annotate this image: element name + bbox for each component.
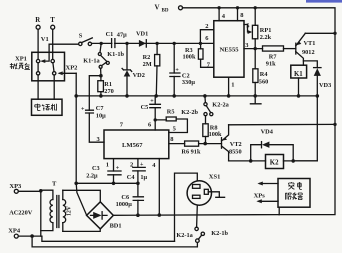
svg-text:R5: R5 bbox=[167, 108, 175, 115]
node R1 top junction bbox=[99, 74, 103, 78]
wire VD3 cathode lead to bus bbox=[316, 76, 318, 96]
svg-text:2M: 2M bbox=[143, 61, 152, 68]
svg-text:2.2μ: 2.2μ bbox=[86, 172, 98, 179]
node pin6/R5 junction bbox=[154, 118, 157, 121]
svg-text:+: + bbox=[81, 106, 85, 112]
svg-text:V1: V1 bbox=[41, 36, 49, 43]
svg-text:1μ: 1μ bbox=[140, 174, 147, 181]
ground symbol below R4 bbox=[250, 96, 261, 104]
svg-text:NE555: NE555 bbox=[220, 47, 240, 54]
node pin3/RP1/R4 junction bbox=[254, 47, 257, 50]
connector XPs arrows bbox=[254, 182, 278, 204]
wire VD4 branch bbox=[251, 145, 294, 161]
transistor Q2 VT2 8550 PNP bbox=[222, 125, 242, 161]
diode VD1 bbox=[136, 30, 148, 47]
op-amp U2 LM567 tone decoder bbox=[104, 130, 169, 159]
svg-text:K2-2b: K2-2b bbox=[181, 109, 198, 116]
svg-text:R4: R4 bbox=[260, 71, 269, 78]
wire RP1 top lead bbox=[254, 8, 256, 26]
svg-text:XS1: XS1 bbox=[209, 174, 221, 181]
svg-text:330μ: 330μ bbox=[182, 79, 195, 86]
wire R1 leads bbox=[100, 76, 102, 96]
wire neutral from transformer to XS1 riser bbox=[42, 236, 175, 241]
svg-text:1: 1 bbox=[106, 162, 109, 169]
wire collector spur to VD3 bbox=[303, 61, 317, 68]
potentiometer RP1 body bbox=[252, 25, 257, 39]
wire VD3-node down to K2 return bbox=[293, 96, 317, 161]
switch K1-1b bbox=[98, 43, 124, 64]
wire top VBD rail + right border rail + bottom DC rail bbox=[183, 8, 336, 215]
svg-text:VD2: VD2 bbox=[133, 72, 145, 79]
svg-text:1: 1 bbox=[231, 82, 234, 89]
capacitor C7 bbox=[81, 105, 106, 119]
svg-text:2: 2 bbox=[130, 162, 133, 169]
wire DC+ rail from BD1 to border bbox=[113, 214, 279, 217]
svg-text:K1: K1 bbox=[294, 71, 303, 78]
接线盒 label (junction box) bbox=[10, 63, 30, 69]
node DC+ junctions bbox=[136, 213, 161, 217]
svg-text:+: + bbox=[175, 68, 179, 74]
wire R2 leads bbox=[155, 43, 158, 96]
svg-text:9012: 9012 bbox=[302, 49, 315, 56]
wire XS1 bottom pin to K2-1a bbox=[196, 205, 199, 227]
svg-text:VD3: VD3 bbox=[319, 82, 331, 89]
svg-text:R7: R7 bbox=[269, 54, 277, 61]
socket XS1 outline bbox=[187, 174, 220, 206]
wire VT1 emitter to VBD rail bbox=[305, 32, 335, 34]
capacitor C4 bbox=[127, 159, 148, 184]
电话机 box (telephone set) bbox=[32, 99, 63, 115]
svg-text:K2-1a: K2-1a bbox=[176, 232, 193, 239]
wire secondary bottom to BD1 bbox=[63, 229, 100, 232]
svg-text:XP2: XP2 bbox=[66, 64, 78, 71]
svg-text:VD1: VD1 bbox=[136, 30, 148, 37]
resistor R2 body bbox=[155, 55, 160, 66]
node R line terminal bbox=[35, 17, 40, 29]
capacitor C2 electrolytic bbox=[170, 43, 195, 96]
wire NE555 pin 2 lead bbox=[200, 30, 213, 44]
resistor R4 body bbox=[253, 69, 258, 83]
svg-text:C5: C5 bbox=[141, 104, 149, 111]
R2 value label bbox=[143, 54, 152, 68]
wire T line down to jack bbox=[52, 29, 54, 59]
svg-text:270: 270 bbox=[104, 88, 113, 95]
svg-text:K2-1b: K2-1b bbox=[211, 230, 228, 237]
node ground spine junction bbox=[74, 182, 78, 186]
capacitor C3 bbox=[86, 159, 121, 184]
svg-text:S: S bbox=[79, 33, 83, 40]
node R8/base junction bbox=[203, 142, 207, 146]
wire ground spine (phone common / DC minus) bbox=[76, 73, 86, 215]
wire R3 top lead bbox=[200, 43, 202, 49]
resistor R7 body bbox=[263, 46, 284, 51]
switch K2-2b bbox=[181, 109, 207, 116]
wire R line down to jack bbox=[37, 29, 39, 59]
svg-text:2.2k: 2.2k bbox=[260, 34, 272, 41]
R1 value label bbox=[104, 81, 113, 95]
R3 value label bbox=[183, 47, 196, 61]
node bus junctions bbox=[74, 94, 319, 98]
node emitter-rail junction bbox=[333, 32, 336, 35]
wire NE555 pin 7 lead bbox=[201, 59, 214, 67]
node VD4 branch junctions bbox=[249, 159, 295, 163]
wire VT2 emitter to VBD border rail bbox=[229, 123, 335, 125]
wire DC minus line to C3 C4 bbox=[76, 182, 138, 184]
wire jack to telephone box bbox=[38, 75, 54, 99]
connector XP4 terminal bbox=[8, 227, 42, 238]
wire jack internal links bbox=[38, 63, 54, 72]
svg-text:BD: BD bbox=[162, 9, 169, 14]
rectifier BD1 bridge bbox=[87, 202, 122, 230]
wire NE555 pin 5 lead to RP1 wiper bbox=[244, 25, 250, 33]
resistor R6 body bbox=[185, 141, 199, 146]
svg-text:2: 2 bbox=[205, 23, 208, 30]
node XP4 junction bbox=[30, 234, 34, 238]
RP1 wiper arrowhead bbox=[248, 30, 253, 34]
svg-text:91k: 91k bbox=[266, 61, 276, 68]
node T line terminal bbox=[50, 17, 55, 29]
diode VD4 bbox=[261, 129, 274, 148]
svg-text:T: T bbox=[50, 17, 55, 24]
connector XP3 terminal bbox=[9, 183, 42, 193]
node VBD supply terminal bbox=[155, 4, 183, 14]
resistor R1 body bbox=[98, 81, 104, 92]
svg-text:C7: C7 bbox=[96, 105, 104, 112]
capacitor C1 bbox=[106, 31, 127, 48]
wire pin 8 to R6 bbox=[169, 143, 185, 145]
wire LM567 pin 4 lead to DC+ bbox=[158, 159, 160, 216]
svg-text:XPs: XPs bbox=[254, 192, 266, 199]
R7 value label bbox=[266, 54, 277, 68]
svg-text:+: + bbox=[140, 162, 144, 168]
wire secondary top to BD1 bbox=[63, 190, 101, 202]
svg-text:K2: K2 bbox=[270, 159, 279, 166]
switch K2-1a bbox=[176, 227, 201, 242]
svg-text:560: 560 bbox=[259, 79, 268, 86]
wire XS1 earth pin bbox=[208, 192, 224, 198]
transistor Q1 VT1 9012 PNP bbox=[296, 33, 316, 65]
wire R4 bottom lead bbox=[254, 83, 256, 96]
svg-text:+: + bbox=[116, 165, 120, 171]
node C3 C4 junctions bbox=[112, 182, 140, 186]
服务器 label bbox=[285, 193, 302, 200]
wire XS1 top pin loop to neutral bbox=[175, 173, 198, 241]
zener diode VD2 bbox=[122, 43, 145, 96]
家电 label bbox=[288, 182, 302, 189]
svg-text:12V: 12V bbox=[67, 205, 73, 216]
svg-text:+: + bbox=[150, 99, 154, 105]
wire C7 to LM567 pin 3 bbox=[89, 113, 104, 142]
svg-text:47μ: 47μ bbox=[117, 31, 127, 38]
svg-text:VT2: VT2 bbox=[230, 141, 242, 148]
R8 value label bbox=[209, 124, 222, 138]
svg-text:R6 91k: R6 91k bbox=[181, 148, 201, 155]
svg-text:V: V bbox=[155, 4, 160, 12]
svg-text:T: T bbox=[52, 181, 57, 188]
svg-text:100k: 100k bbox=[183, 54, 196, 61]
node emitter rail junction bbox=[333, 123, 336, 126]
relay K1 coil box bbox=[291, 65, 307, 78]
svg-text:XP1: XP1 bbox=[15, 56, 27, 63]
wire NE555 pin 1 lead to bus bbox=[228, 77, 230, 96]
switch K2-1b bbox=[201, 230, 228, 237]
wire K1-1a node to C7 branch bbox=[89, 76, 101, 111]
wire R6 to VT2 base bbox=[199, 143, 222, 145]
wire ground bus bbox=[76, 95, 317, 97]
RP1 value label bbox=[260, 27, 272, 41]
wire bottom mains return bbox=[32, 236, 197, 247]
svg-text:K1-1b: K1-1b bbox=[107, 51, 124, 58]
wire R5 loop to pin 5 bbox=[155, 119, 187, 133]
svg-text:AC220V: AC220V bbox=[9, 209, 33, 216]
svg-text:BD1: BD1 bbox=[110, 223, 122, 230]
家电服务器 box (appliance server) bbox=[278, 179, 310, 215]
svg-text:C1: C1 bbox=[106, 31, 114, 38]
switch K1-1a bbox=[83, 58, 106, 76]
wire K1 bottom lead bbox=[298, 78, 300, 96]
svg-text:8550: 8550 bbox=[229, 149, 242, 156]
wire S feed with plug arrow into jack bbox=[43, 44, 79, 61]
connector XP1 jack box bbox=[32, 52, 65, 81]
resistor R3 body bbox=[198, 49, 203, 59]
switch K2-2a bbox=[204, 96, 230, 116]
wire R8 leads bbox=[205, 116, 207, 144]
op-amp U1 NE555 timer bbox=[214, 21, 244, 77]
wire phone signal line S to NE555 bbox=[92, 42, 214, 44]
decorative blue page rule (top right) bbox=[306, 0, 342, 3]
svg-text:C6: C6 bbox=[121, 194, 129, 201]
diode VD3 bbox=[314, 68, 332, 89]
svg-text:VD4: VD4 bbox=[261, 129, 274, 136]
resistor R5 body bbox=[166, 117, 176, 121]
svg-text:VT1: VT1 bbox=[304, 40, 316, 47]
svg-text:C3: C3 bbox=[92, 165, 100, 172]
电话机 label bbox=[35, 104, 57, 111]
svg-text:1000μ: 1000μ bbox=[116, 201, 133, 208]
wire NE555 pin 8 lead bbox=[237, 8, 239, 21]
transformer T bbox=[41, 181, 73, 237]
switch S bbox=[79, 33, 93, 46]
wire RP1 bottom lead bbox=[254, 39, 256, 49]
svg-text:R: R bbox=[35, 17, 40, 24]
wire R4 top lead bbox=[254, 49, 256, 69]
svg-text:10μ: 10μ bbox=[96, 113, 106, 120]
capacitor C5 on pin 6 bbox=[141, 96, 161, 130]
resistor R8 body bbox=[203, 124, 208, 137]
wire NE555 pin 3 lead bbox=[244, 48, 263, 50]
svg-text:100k: 100k bbox=[209, 131, 222, 138]
wire VT2 collector to K2 bbox=[229, 160, 318, 162]
relay K2 coil box bbox=[266, 155, 284, 169]
node signal wire junctions bbox=[100, 42, 203, 45]
node jack contact circles bbox=[36, 59, 56, 75]
svg-text:K1-1a: K1-1a bbox=[83, 58, 100, 65]
svg-text:XP4: XP4 bbox=[8, 227, 21, 234]
R4 value label bbox=[259, 71, 269, 86]
wire R7 to VT1 base bbox=[284, 48, 296, 50]
XP1 plug arrowhead bbox=[40, 59, 45, 63]
capacitor C6 1000u bbox=[116, 183, 144, 215]
connector XP2 plug arrow bbox=[60, 72, 77, 74]
svg-text:C4: C4 bbox=[127, 174, 136, 181]
svg-text:K2-2a: K2-2a bbox=[212, 101, 229, 108]
node rail junctions bbox=[217, 6, 256, 9]
wire NE555 pin 4 lead bbox=[218, 8, 220, 21]
svg-text:LM567: LM567 bbox=[122, 142, 143, 149]
svg-text:RP1: RP1 bbox=[260, 27, 272, 34]
